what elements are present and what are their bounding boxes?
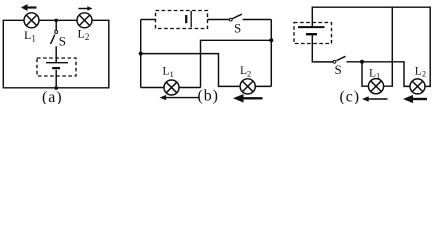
wire: switch to L2 corner (c) bbox=[347, 62, 411, 87]
svg-text:S: S bbox=[59, 34, 66, 49]
battery cell (c) bbox=[298, 27, 325, 34]
node: junction dot left rail (b) bbox=[139, 52, 143, 56]
wire: dot down to lamp L1 (c) bbox=[362, 62, 369, 86]
current arrow below L1 (b), thin left bbox=[160, 95, 200, 100]
current arrow below L1 (c), thin left bbox=[362, 96, 388, 101]
switch S (c) bbox=[333, 56, 345, 63]
dashed box (a) bbox=[37, 58, 76, 76]
wire: junction to switch (a) bbox=[55, 20, 57, 30]
wire: switch to battery (a) bbox=[55, 46, 57, 62]
lamp L2 (a) bbox=[77, 13, 92, 28]
wire: circuit (a) outer loop bbox=[3, 20, 109, 88]
wire: battery to bottom rail (a) bbox=[55, 70, 57, 88]
current arrow below L2 (b), bold left bbox=[233, 94, 263, 103]
wire: right rail (b) bbox=[270, 20, 272, 87]
wire: left rail (b) bbox=[140, 20, 142, 88]
wire: L1 right rail (c) bbox=[384, 7, 393, 86]
svg-text:S: S bbox=[335, 62, 342, 77]
wire: switch to right rail (b) bbox=[243, 19, 272, 21]
wire: battery to switch (c) bbox=[312, 35, 333, 62]
switch S (b) bbox=[229, 14, 241, 21]
dashed box (c) bbox=[294, 23, 332, 44]
wire: bottom left to lamp L1 (b) bbox=[141, 87, 164, 89]
wire: lamp L1 right segment (b) bbox=[179, 87, 201, 89]
wire: circuit (b) top left segment bbox=[141, 19, 156, 21]
battery cell (b) bbox=[186, 11, 191, 28]
node: junction dot top (a) bbox=[54, 19, 58, 23]
lamp L1 (a) bbox=[24, 13, 39, 28]
node: junction dot right rail (b) bbox=[269, 38, 273, 42]
wire: L2 branch upper (b) bbox=[141, 54, 240, 87]
lamp L2 (c) bbox=[410, 79, 425, 94]
node: junction dot bottom (a) bbox=[54, 86, 58, 90]
svg-text:(c): (c) bbox=[340, 89, 360, 105]
current arrow above L2 (a), thin right bbox=[79, 6, 93, 11]
wire: L1 branch upper (b) bbox=[201, 40, 272, 87]
svg-text:S: S bbox=[234, 20, 241, 35]
battery cell (a) bbox=[46, 63, 68, 68]
node: junction dot (c) bbox=[360, 60, 364, 64]
current arrow below L2 (c), bold left bbox=[403, 95, 427, 103]
wire: lamp L2 right segment (b) bbox=[255, 85, 271, 87]
wire: box to switch (b) bbox=[208, 19, 230, 21]
svg-text:(b): (b) bbox=[198, 88, 219, 105]
lamp L1 (b) bbox=[164, 80, 179, 95]
switch S (a) bbox=[51, 31, 58, 45]
lamp L2 (b) bbox=[240, 79, 255, 94]
lamp L1 (c) bbox=[368, 79, 383, 94]
dashed box (b) bbox=[156, 11, 208, 29]
svg-text:(a): (a) bbox=[42, 89, 62, 104]
wire: circuit (c) top rail and right rail bbox=[312, 7, 430, 86]
current arrow above L1 (a), bold left bbox=[21, 4, 37, 11]
